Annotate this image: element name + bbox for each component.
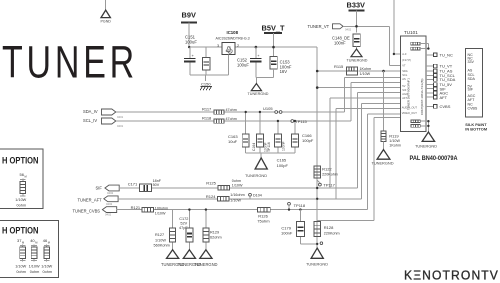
svg-text:3: 3 bbox=[217, 44, 219, 48]
svg-text:1/10W: 1/10W bbox=[155, 211, 166, 215]
svg-text:220Kohm: 220Kohm bbox=[324, 231, 340, 235]
svg-text:1/10W: 1/10W bbox=[29, 265, 40, 269]
svg-text:M: M bbox=[48, 241, 50, 245]
svg-text:1Kohm: 1Kohm bbox=[389, 144, 401, 148]
svg-text:100ohm: 100ohm bbox=[155, 206, 168, 210]
svg-text:1/10W: 1/10W bbox=[41, 265, 52, 269]
svg-text:560Kohm: 560Kohm bbox=[154, 244, 170, 248]
svg-text:1/10W: 1/10W bbox=[15, 198, 26, 202]
svg-text:C165: C165 bbox=[277, 158, 287, 163]
svg-text:H OPTION: H OPTION bbox=[2, 225, 39, 235]
svg-text:SDA: SDA bbox=[468, 77, 476, 81]
svg-text:TU_NC: TU_NC bbox=[440, 52, 453, 57]
svg-text:TP116: TP116 bbox=[267, 142, 271, 152]
svg-text:50V: 50V bbox=[153, 183, 160, 187]
svg-text:R127: R127 bbox=[155, 233, 164, 237]
svg-text:TUNERGND: TUNERGND bbox=[194, 262, 217, 267]
svg-text:1/10W: 1/10W bbox=[155, 238, 166, 242]
svg-text:C171: C171 bbox=[128, 181, 138, 186]
svg-text:1/10W: 1/10W bbox=[230, 198, 241, 202]
svg-text:C172: C172 bbox=[179, 217, 188, 221]
svg-text:IC108: IC108 bbox=[227, 30, 239, 35]
svg-text:SCL_IV: SCL_IV bbox=[83, 118, 97, 123]
svg-text:R117: R117 bbox=[202, 106, 212, 111]
svg-text:M: M bbox=[22, 241, 24, 245]
svg-text:47ohm: 47ohm bbox=[226, 108, 237, 112]
svg-text:TUNERGND: TUNERGND bbox=[245, 173, 267, 178]
svg-text:0ohm: 0ohm bbox=[16, 270, 26, 274]
svg-text:TUNERGND: TUNERGND bbox=[415, 143, 437, 148]
svg-text:1Kohm: 1Kohm bbox=[360, 67, 372, 71]
svg-text:TUNERGND: TUNERGND bbox=[306, 261, 328, 266]
svg-text:TU101: TU101 bbox=[404, 30, 418, 35]
svg-text:TUNER_VT: TUNER_VT bbox=[308, 24, 330, 29]
svg-text:C164: C164 bbox=[252, 143, 256, 151]
svg-text:R118: R118 bbox=[202, 116, 212, 121]
svg-text:1/10W: 1/10W bbox=[232, 183, 243, 187]
svg-text:SIF: SIF bbox=[96, 185, 103, 190]
svg-text:75ohm: 75ohm bbox=[257, 219, 270, 224]
svg-text:0ohm: 0ohm bbox=[17, 204, 27, 208]
svg-text:100pF: 100pF bbox=[302, 138, 314, 143]
svg-text:1/16ohm: 1/16ohm bbox=[230, 193, 244, 197]
svg-text:VIDEO_OUT: VIDEO_OUT bbox=[402, 111, 417, 115]
svg-text:220Kohm: 220Kohm bbox=[322, 173, 338, 177]
svg-text:0ohm: 0ohm bbox=[30, 270, 40, 274]
svg-text:VT: VT bbox=[402, 64, 406, 68]
svg-text:100uF: 100uF bbox=[237, 63, 249, 68]
svg-text:TP118: TP118 bbox=[294, 203, 306, 208]
svg-text:(F17,P): (F17,P) bbox=[402, 58, 411, 62]
svg-text:SDA_IV: SDA_IV bbox=[83, 109, 98, 114]
svg-text:TP115: TP115 bbox=[295, 119, 307, 124]
svg-text:B9V: B9V bbox=[182, 11, 196, 20]
svg-text:SDA: SDA bbox=[402, 69, 408, 73]
svg-text:62ohm: 62ohm bbox=[210, 236, 222, 240]
svg-text:100pF: 100pF bbox=[277, 163, 289, 168]
svg-text:R129: R129 bbox=[210, 230, 219, 234]
svg-text:10uF: 10uF bbox=[228, 139, 238, 144]
svg-text:TUNER: TUNER bbox=[2, 37, 138, 88]
svg-text:R125: R125 bbox=[206, 181, 216, 186]
svg-text:IN BOTTOM: IN BOTTOM bbox=[465, 126, 487, 131]
svg-text:100nF: 100nF bbox=[281, 230, 293, 235]
svg-text:U105: U105 bbox=[263, 106, 273, 111]
svg-text:R128: R128 bbox=[324, 225, 334, 230]
svg-text:0402: 0402 bbox=[106, 202, 113, 206]
svg-text:0401: 0401 bbox=[117, 115, 124, 119]
svg-text:0402: 0402 bbox=[345, 27, 352, 31]
svg-text:47ohm: 47ohm bbox=[226, 117, 237, 121]
svg-text:PGND: PGND bbox=[101, 20, 112, 24]
svg-text:TUNERGND: TUNERGND bbox=[248, 92, 269, 96]
svg-text:KΞNOTRONTV: KΞNOTRONTV bbox=[404, 268, 499, 283]
svg-text:TUNER DWT-9063FNF1: TUNER DWT-9063FNF1 bbox=[407, 78, 411, 110]
svg-text:0ohm: 0ohm bbox=[43, 270, 53, 274]
svg-text:TUNER_AFT: TUNER_AFT bbox=[78, 198, 103, 203]
svg-text:0402: 0402 bbox=[105, 213, 112, 217]
svg-text:B33V: B33V bbox=[347, 1, 366, 10]
svg-text:D104: D104 bbox=[253, 193, 262, 197]
svg-text:100nF: 100nF bbox=[281, 141, 285, 151]
svg-text:1/10W: 1/10W bbox=[389, 139, 400, 143]
svg-text:C150: C150 bbox=[201, 81, 211, 86]
svg-text:2: 2 bbox=[237, 44, 239, 48]
svg-text:CON?(DWT-1063A-T24-(B)): CON?(DWT-1063A-T24-(B)) bbox=[420, 79, 424, 115]
svg-text:R122: R122 bbox=[322, 167, 332, 172]
svg-text:0402: 0402 bbox=[107, 191, 114, 195]
svg-text:R121: R121 bbox=[131, 205, 141, 210]
svg-text:TP117: TP117 bbox=[323, 183, 335, 188]
svg-text:AIC3S26WDTR8-G.3: AIC3S26WDTR8-G.3 bbox=[216, 36, 250, 40]
svg-text:1/10W: 1/10W bbox=[15, 265, 26, 269]
svg-text:R124: R124 bbox=[206, 194, 216, 199]
svg-text:PAL BN40-00079A: PAL BN40-00079A bbox=[410, 155, 458, 162]
svg-text:47pF: 47pF bbox=[179, 226, 188, 230]
svg-text:TUNERGND: TUNERGND bbox=[371, 161, 393, 166]
svg-text:TUNERGND: TUNERGND bbox=[347, 59, 368, 63]
svg-text:B5V_T: B5V_T bbox=[262, 24, 285, 33]
svg-text:1/10W: 1/10W bbox=[360, 72, 371, 76]
svg-text:16V: 16V bbox=[280, 69, 288, 74]
svg-text:R119: R119 bbox=[389, 134, 399, 139]
svg-text:0401: 0401 bbox=[117, 124, 124, 128]
svg-text:100nF: 100nF bbox=[334, 41, 346, 46]
svg-text:TUNER_CVBS: TUNER_CVBS bbox=[73, 208, 101, 213]
svg-text:CVBS: CVBS bbox=[468, 107, 478, 111]
svg-text:SIF: SIF bbox=[468, 88, 474, 92]
svg-text:33V: 33V bbox=[468, 60, 475, 64]
svg-text:AS: AS bbox=[402, 77, 406, 81]
svg-text:M: M bbox=[25, 175, 27, 179]
svg-text:CVBS: CVBS bbox=[440, 104, 451, 109]
svg-text:A-0: A-0 bbox=[402, 52, 407, 56]
svg-text:AFT: AFT bbox=[440, 95, 448, 100]
svg-text:5V: 5V bbox=[402, 84, 405, 88]
svg-text:H OPTION: H OPTION bbox=[2, 155, 39, 165]
svg-text:R115: R115 bbox=[334, 64, 344, 69]
svg-text:M: M bbox=[35, 241, 37, 245]
svg-text:SCL: SCL bbox=[402, 73, 408, 77]
svg-text:100uF: 100uF bbox=[185, 40, 197, 45]
